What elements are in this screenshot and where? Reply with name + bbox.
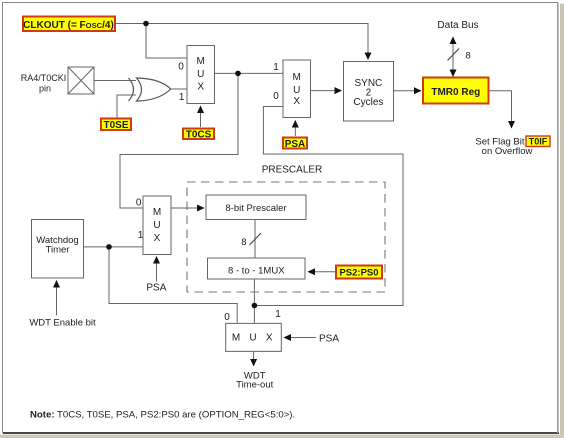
svg-text:M U X: M U X bbox=[232, 333, 276, 344]
svg-text:CLKOUT (= FOSC/4): CLKOUT (= FOSC/4) bbox=[23, 20, 114, 31]
svg-text:U: U bbox=[197, 69, 204, 80]
svg-text:0: 0 bbox=[136, 198, 142, 209]
svg-text:pin: pin bbox=[39, 84, 51, 94]
svg-text:Cycles: Cycles bbox=[353, 97, 383, 108]
svg-text:Note: T0CS, T0SE, PSA, PS2:PS0: Note: T0CS, T0SE, PSA, PS2:PS0 are (OPTI… bbox=[30, 409, 295, 420]
svg-text:Data Bus: Data Bus bbox=[437, 20, 478, 31]
svg-text:on Overflow: on Overflow bbox=[482, 146, 533, 157]
svg-text:1: 1 bbox=[179, 92, 185, 103]
svg-text:Time-out: Time-out bbox=[236, 380, 273, 391]
svg-text:8 - to - 1MUX: 8 - to - 1MUX bbox=[228, 265, 285, 276]
svg-text:U: U bbox=[293, 85, 300, 96]
svg-text:M: M bbox=[153, 207, 161, 218]
svg-text:T0IF: T0IF bbox=[529, 136, 548, 146]
svg-text:PSA: PSA bbox=[319, 333, 339, 344]
svg-text:8: 8 bbox=[466, 51, 471, 62]
svg-text:M: M bbox=[197, 56, 205, 67]
svg-text:0: 0 bbox=[273, 91, 279, 102]
svg-text:U: U bbox=[153, 220, 160, 231]
svg-text:0: 0 bbox=[224, 312, 230, 323]
svg-text:PRESCALER: PRESCALER bbox=[262, 165, 323, 176]
svg-text:X: X bbox=[197, 82, 204, 93]
svg-text:WDT Enable bit: WDT Enable bit bbox=[29, 318, 96, 329]
svg-text:8: 8 bbox=[241, 237, 246, 248]
svg-text:1: 1 bbox=[138, 230, 144, 241]
svg-text:1: 1 bbox=[275, 309, 281, 320]
svg-text:Timer: Timer bbox=[46, 245, 70, 256]
svg-text:T0SE: T0SE bbox=[103, 120, 128, 131]
svg-text:PSA: PSA bbox=[146, 283, 166, 294]
svg-text:PS2:PS0: PS2:PS0 bbox=[339, 268, 378, 279]
svg-text:0: 0 bbox=[178, 62, 184, 73]
svg-text:T0CS: T0CS bbox=[186, 129, 212, 140]
svg-text:1: 1 bbox=[273, 62, 279, 73]
svg-text:PSA: PSA bbox=[285, 139, 306, 150]
svg-text:RA4/T0CKI: RA4/T0CKI bbox=[21, 73, 67, 83]
svg-text:8-bit Prescaler: 8-bit Prescaler bbox=[225, 203, 286, 214]
svg-text:X: X bbox=[154, 233, 161, 244]
svg-text:M: M bbox=[293, 72, 301, 83]
svg-text:X: X bbox=[293, 96, 300, 107]
svg-text:TMR0 Reg: TMR0 Reg bbox=[431, 87, 480, 98]
